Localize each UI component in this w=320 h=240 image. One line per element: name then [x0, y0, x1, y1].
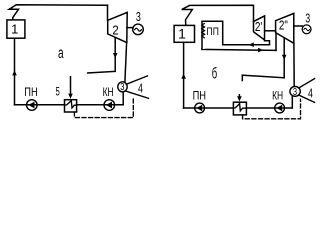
svg-text:1: 1: [11, 21, 18, 36]
svg-text:КН: КН: [103, 85, 114, 99]
svg-text:3: 3: [293, 86, 297, 98]
svg-text:1: 1: [178, 26, 186, 42]
svg-text:б: б: [212, 65, 217, 82]
svg-text:ПП: ПП: [207, 26, 219, 38]
svg-text:3: 3: [136, 9, 141, 24]
svg-text:2': 2': [255, 20, 263, 34]
svg-text:КН: КН: [272, 89, 283, 103]
svg-text:4: 4: [308, 86, 313, 101]
svg-text:ПН: ПН: [24, 85, 37, 99]
svg-text:2: 2: [112, 23, 118, 38]
svg-text:4: 4: [138, 80, 143, 95]
svg-text:5: 5: [56, 85, 61, 99]
svg-text:а: а: [58, 45, 64, 62]
svg-text:ПН: ПН: [193, 89, 206, 103]
svg-text:2": 2": [279, 19, 288, 33]
svg-text:3: 3: [305, 11, 310, 26]
svg-text:3: 3: [120, 81, 124, 93]
